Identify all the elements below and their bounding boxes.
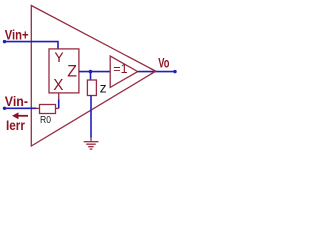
svg-text:Z: Z — [67, 62, 77, 81]
resistor R0 — [40, 105, 56, 114]
buffer U3 (=1 unity gain) — [110, 56, 138, 87]
wire (Z output of box to buffer input, blue) — [79, 71, 110, 73]
svg-text:Vin-: Vin- — [5, 93, 28, 109]
wire (R0 right lead, maroon) — [56, 107, 59, 109]
wire (Vin+ input, blue horizontal then down to box top) — [5, 42, 59, 49]
wire (Vin- input, blue horizontal to R0) — [5, 107, 37, 109]
node junction (Z net) — [89, 70, 93, 74]
node Vin+ (terminal dot) — [3, 40, 6, 43]
svg-text:z: z — [100, 79, 107, 95]
op-amp U1 apex tip (redrawn over wire) — [150, 68, 156, 74]
arrow Ierr (current direction, pointing left) — [12, 112, 28, 119]
svg-text:R0: R0 — [40, 115, 51, 126]
svg-text:X: X — [53, 77, 64, 94]
wire (blue, box bottom to R0 right lead) — [58, 100, 60, 109]
svg-text:Vin+: Vin+ — [5, 26, 29, 42]
node Vin- (terminal dot) — [3, 107, 6, 110]
wire (z bottom down to ground, blue) — [90, 96, 92, 138]
op-amp U1 (main amplifier triangle) — [31, 6, 155, 147]
svg-text:Ierr: Ierr — [6, 117, 25, 133]
svg-text:=1: =1 — [113, 62, 127, 76]
controlled-source box U2 (Y Z X) — [49, 49, 79, 93]
svg-text:Vo: Vo — [158, 55, 169, 71]
ground — [84, 138, 99, 150]
wire (R0 left lead, maroon) — [36, 107, 40, 109]
node Vo (terminal dot) — [173, 70, 176, 73]
impedance z (vertical box) — [87, 80, 96, 96]
wire (junction down to z impedance) — [90, 72, 92, 80]
wire (box bottom stub, maroon) — [58, 93, 60, 100]
svg-text:Y: Y — [54, 49, 64, 65]
wire (buffer output to Vo, blue) — [138, 71, 175, 73]
